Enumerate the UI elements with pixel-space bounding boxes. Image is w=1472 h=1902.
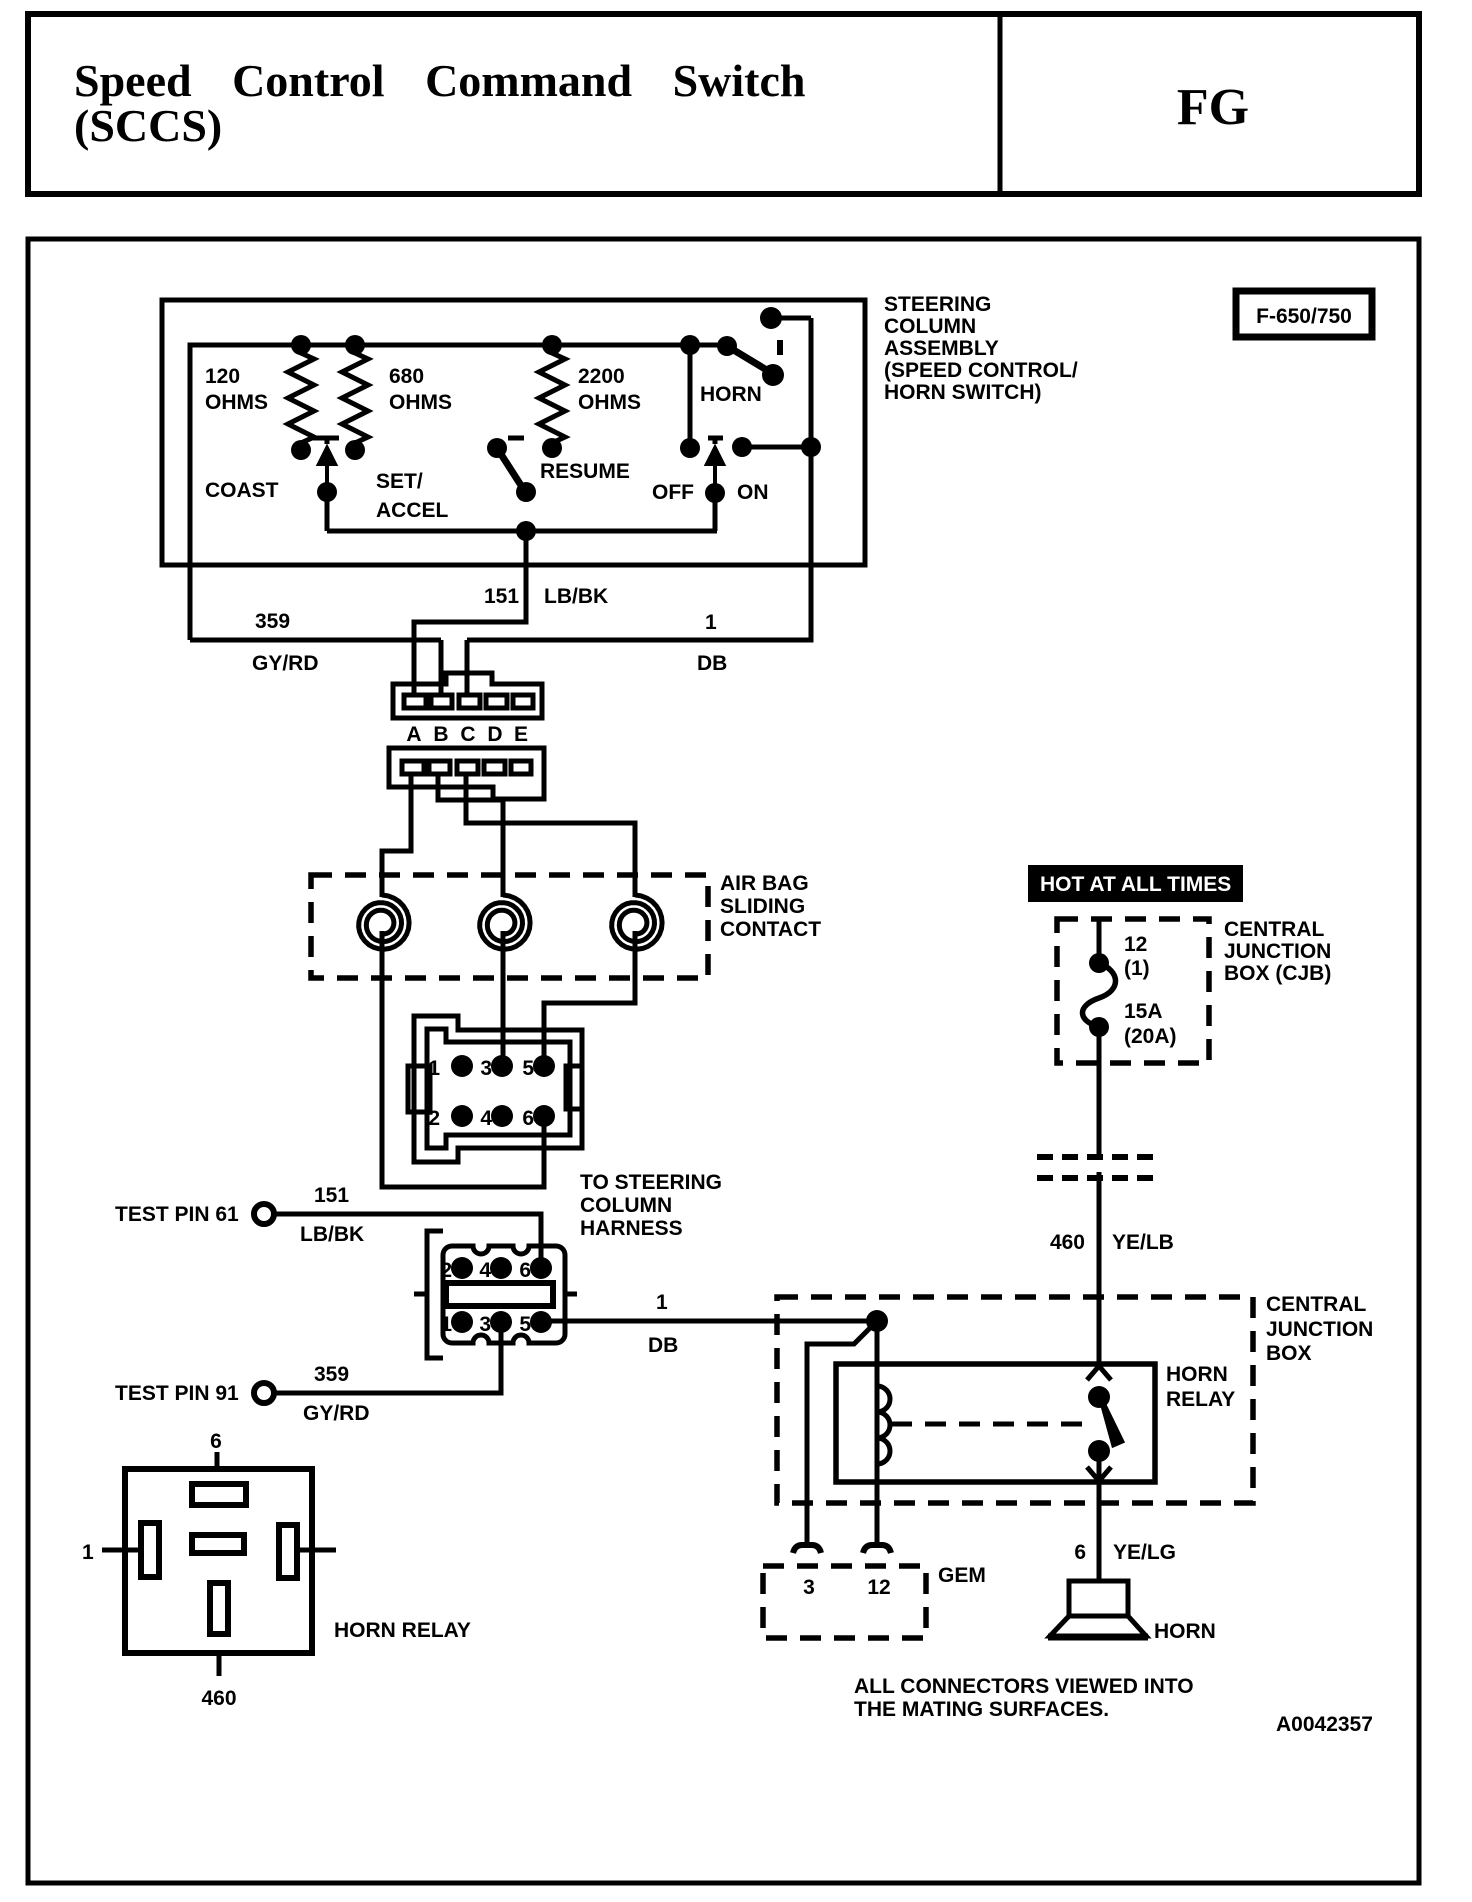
- svg-text:6: 6: [522, 1107, 534, 1130]
- svg-text:OHMS: OHMS: [578, 391, 641, 414]
- svg-text:(1): (1): [1124, 957, 1150, 980]
- svg-text:F-650/750: F-650/750: [1256, 305, 1352, 328]
- svg-text:(SPEED CONTROL/: (SPEED CONTROL/: [884, 359, 1078, 382]
- GEM dashed box: [763, 1566, 926, 1638]
- resistor R 680 OHMS: [342, 345, 368, 451]
- svg-text:ACCEL: ACCEL: [376, 499, 449, 522]
- svg-text:C: C: [460, 723, 475, 746]
- node dot R2 bottom: [345, 440, 365, 460]
- svg-text:COLUMN: COLUMN: [580, 1194, 672, 1217]
- node dot R3 bottom: [542, 438, 562, 458]
- svg-text:359: 359: [314, 1363, 349, 1386]
- wire junction to relay coil: [875, 1321, 880, 1386]
- wire horn top dot to right rail: [771, 316, 811, 321]
- node dot R1 bottom: [291, 440, 311, 460]
- connector C2 pin D slot: [484, 761, 505, 774]
- node dot R2 top: [345, 335, 365, 355]
- connector C2 pin B slot: [429, 761, 450, 774]
- connector C3 left side tab: [408, 1066, 430, 1112]
- svg-text:YE/LB: YE/LB: [1112, 1231, 1174, 1254]
- steering column assembly outer box: [162, 300, 865, 565]
- wire 1 DB C4 pin 5 to CJB junction: [551, 1319, 877, 1324]
- horn relay connector bottom tick: [217, 1653, 222, 1676]
- svg-text:120: 120: [205, 365, 240, 388]
- svg-text:3: 3: [480, 1057, 492, 1080]
- svg-text:2200: 2200: [578, 365, 625, 388]
- connector C4 pin 6 dot: [530, 1257, 552, 1279]
- wire 1 DB right side run: [467, 318, 811, 640]
- svg-text:THE MATING SURFACES.: THE MATING SURFACES.: [854, 1698, 1109, 1721]
- svg-text:SLIDING: SLIDING: [720, 895, 805, 918]
- inline connector lower dash bar: [1037, 1175, 1160, 1181]
- svg-text:CENTRAL: CENTRAL: [1266, 1293, 1366, 1316]
- relay switch top contact dot: [1088, 1386, 1110, 1408]
- svg-text:HORN SWITCH): HORN SWITCH): [884, 381, 1041, 404]
- svg-text:1: 1: [656, 1291, 668, 1314]
- horn relay connector pin 6 tick: [215, 1452, 220, 1469]
- horn relay connector center slot: [192, 1535, 244, 1553]
- test pin 61 terminal ring: [254, 1204, 274, 1224]
- node dot COAST common: [317, 482, 337, 502]
- resistor R 120 OHMS: [288, 345, 314, 451]
- svg-text:SET/: SET/: [376, 470, 423, 493]
- junction dot right rail at ON: [801, 437, 821, 457]
- wire 6 YE/LG relay to horn: [1097, 1451, 1102, 1581]
- svg-text:RELAY: RELAY: [1166, 1388, 1235, 1411]
- wire ON common to bus: [715, 493, 717, 531]
- svg-text:12: 12: [1124, 933, 1147, 956]
- relay switch exit arrow: [1087, 1467, 1111, 1481]
- svg-text:GY/RD: GY/RD: [252, 652, 319, 675]
- connector C4 pin 5 dot: [530, 1311, 552, 1333]
- fuse bottom node dot: [1089, 1017, 1109, 1037]
- wire relay coil to GEM pin 12: [875, 1464, 880, 1544]
- horn relay connector bottom slot: [210, 1583, 228, 1634]
- svg-text:6: 6: [210, 1430, 222, 1453]
- svg-text:AIR BAG: AIR BAG: [720, 872, 809, 895]
- svg-text:151: 151: [314, 1184, 349, 1207]
- svg-text:ON: ON: [737, 481, 769, 504]
- relay coil: [877, 1386, 890, 1464]
- HORN switch lever: [727, 346, 770, 372]
- connector C3 pin 3 dot: [491, 1055, 513, 1077]
- HORN switch pivot dot on bus: [717, 336, 737, 356]
- SET/ACCEL switch contact dot: [487, 438, 507, 458]
- svg-text:A0042357: A0042357: [1276, 1713, 1373, 1736]
- connector C1 pin D slot: [486, 695, 507, 708]
- header divider: [998, 14, 1003, 194]
- relay switch entry arrow: [1087, 1366, 1111, 1380]
- svg-text:B: B: [433, 723, 448, 746]
- connector C2 shell (lower 5-pin): [389, 748, 544, 799]
- HORN switch contact dot: [762, 364, 784, 386]
- node dot OFF top: [680, 335, 700, 355]
- HOT AT ALL TIMES banner: [1028, 865, 1243, 902]
- horn relay box: [836, 1364, 1155, 1482]
- wire 359 bottom run: [190, 638, 441, 643]
- fuse top node dot: [1089, 953, 1109, 973]
- wire from C2 pin A to sliding contact coil 1: [382, 774, 411, 897]
- connector C1 pin C slot: [459, 695, 480, 708]
- node dot SET/ACCEL common: [516, 482, 536, 502]
- svg-text:1: 1: [440, 1313, 452, 1336]
- horn relay connector right slot: [279, 1525, 297, 1578]
- node dot OFF contact: [680, 438, 700, 458]
- svg-text:JUNCTION: JUNCTION: [1266, 1318, 1373, 1341]
- horn relay connector right tick: [297, 1548, 336, 1553]
- horn speaker flare: [1050, 1616, 1146, 1636]
- inline connector upper dash bar: [1037, 1154, 1160, 1160]
- ON switch movable arm arrow: [707, 448, 723, 493]
- svg-text:LB/BK: LB/BK: [300, 1223, 364, 1246]
- connector C1 shell (upper 5-pin): [393, 673, 542, 718]
- horn speaker body: [1069, 1581, 1128, 1616]
- wire feed into fuse: [1097, 921, 1102, 956]
- relay switch lever: [1103, 1404, 1121, 1444]
- svg-text:CENTRAL: CENTRAL: [1224, 918, 1324, 941]
- horn relay connector box: [125, 1469, 312, 1653]
- svg-text:ALL CONNECTORS VIEWED INTO: ALL CONNECTORS VIEWED INTO: [854, 1675, 1194, 1698]
- fuse element S curve: [1082, 963, 1115, 1027]
- svg-text:YE/LG: YE/LG: [1113, 1541, 1176, 1564]
- svg-text:2: 2: [428, 1107, 440, 1130]
- junction dot wire 1 DB: [866, 1310, 888, 1332]
- svg-text:2: 2: [440, 1259, 452, 1282]
- connector C4 body outline with scallops: [443, 1246, 565, 1343]
- F-650/750 badge box: [1236, 291, 1372, 337]
- wire fuse to inline connector: [1097, 1027, 1102, 1158]
- svg-text:HOT AT ALL TIMES: HOT AT ALL TIMES: [1040, 873, 1231, 896]
- svg-text:1: 1: [705, 611, 717, 634]
- connector C3 pin 6 dot: [533, 1105, 555, 1127]
- connector C1 pin A slot: [404, 695, 426, 708]
- svg-text:JUNCTION: JUNCTION: [1224, 940, 1331, 963]
- svg-text:6: 6: [1074, 1541, 1086, 1564]
- COAST switch fixed contact T-bar: [313, 438, 339, 444]
- svg-text:5: 5: [522, 1057, 534, 1080]
- test pin 91 terminal ring: [254, 1383, 274, 1403]
- SET/ACCEL linkage dash: [508, 436, 524, 441]
- connector C3 pin 5 dot: [533, 1055, 555, 1077]
- connector C4 middle key slot: [446, 1283, 553, 1306]
- svg-text:680: 680: [389, 365, 424, 388]
- svg-text:5: 5: [519, 1313, 531, 1336]
- wire from C2 pin C to sliding contact coil 3: [466, 774, 635, 897]
- svg-text:COLUMN: COLUMN: [884, 315, 976, 338]
- svg-text:A: A: [406, 723, 421, 746]
- svg-text:GEM: GEM: [938, 1564, 986, 1587]
- inner wiring loop rectangle: [190, 345, 727, 640]
- svg-text:HARNESS: HARNESS: [580, 1217, 683, 1240]
- svg-text:HORN: HORN: [700, 383, 762, 406]
- OFF contact wire from top bus: [688, 345, 693, 448]
- wire coil2 exit to connector C3 pin 3: [501, 931, 506, 1056]
- sliding contact coil 2: [480, 895, 530, 949]
- central junction box dashed outline: [777, 1297, 1253, 1503]
- sliding contact coil 3: [612, 895, 662, 949]
- ON switch fixed contact T-bar: [708, 438, 723, 444]
- connector C1 pin B slot: [431, 695, 452, 708]
- junction dot wire 151 on bus: [516, 521, 536, 541]
- connector C4 left flange: [427, 1231, 443, 1358]
- HORN switch top node dot: [760, 307, 782, 329]
- svg-text:FG: FG: [1177, 79, 1249, 136]
- svg-text:OHMS: OHMS: [205, 391, 268, 414]
- node dot ON contact: [732, 437, 752, 457]
- node dot R3 top: [542, 335, 562, 355]
- connector C4 right tick: [565, 1292, 577, 1297]
- sliding contact coil 1: [359, 895, 409, 949]
- svg-text:COAST: COAST: [205, 479, 279, 502]
- connector C3 shell outer outline: [414, 1016, 582, 1162]
- node dot R1 top: [291, 335, 311, 355]
- wire from C2 pin B to sliding contact coil 2: [438, 774, 503, 897]
- svg-text:460: 460: [201, 1687, 236, 1710]
- connector C3 right side tab: [566, 1066, 582, 1109]
- svg-text:359: 359: [255, 610, 290, 633]
- connector C2 pin E slot: [511, 761, 531, 774]
- svg-text:TEST PIN 91: TEST PIN 91: [115, 1382, 239, 1405]
- connector C4 pin 4 dot: [490, 1257, 512, 1279]
- CJB fuse dashed box: [1057, 919, 1209, 1063]
- svg-text:TO STEERING: TO STEERING: [580, 1171, 722, 1194]
- COAST switch movable arm arrow: [319, 448, 335, 492]
- svg-text:6: 6: [519, 1259, 531, 1282]
- svg-text:3: 3: [803, 1576, 815, 1599]
- horn relay connector left slot: [141, 1523, 159, 1577]
- wire 151 test pin 61 to C4 pin 6: [274, 1214, 541, 1258]
- svg-text:ASSEMBLY: ASSEMBLY: [884, 337, 999, 360]
- wire 151 from bus junction down-left to pin A: [414, 531, 526, 695]
- node dot ON common: [705, 483, 725, 503]
- GEM pin 3 terminal foot: [793, 1545, 821, 1553]
- HORN switch linkage dash: [777, 340, 783, 355]
- bottom bus wire of switches: [327, 529, 717, 534]
- wire coil3 exit to connector C3 pin 5: [544, 931, 635, 1056]
- svg-text:460: 460: [1050, 1231, 1085, 1254]
- svg-text:CONTACT: CONTACT: [720, 918, 821, 941]
- GEM pin 12 terminal foot: [863, 1545, 891, 1553]
- connector C3 pin 4 dot: [491, 1105, 513, 1127]
- svg-text:1: 1: [428, 1057, 440, 1080]
- header box: [28, 14, 1419, 194]
- SET/ACCEL switch lever: [497, 448, 524, 490]
- relay switch bottom contact dot: [1088, 1440, 1110, 1462]
- connector C4 left tick: [414, 1292, 427, 1297]
- svg-text:4: 4: [479, 1259, 491, 1282]
- wire 460 inline connector to relay: [1097, 1172, 1102, 1366]
- svg-text:HORN: HORN: [1166, 1363, 1228, 1386]
- svg-text:(SCCS): (SCCS): [74, 100, 222, 151]
- svg-text:12: 12: [867, 1576, 890, 1599]
- relay mechanical dashed link: [891, 1422, 1088, 1427]
- wire 359 drop to pin B: [439, 640, 444, 695]
- horn relay connector top slot: [192, 1484, 246, 1505]
- svg-text:DB: DB: [648, 1334, 678, 1357]
- svg-text:DB: DB: [697, 652, 727, 675]
- svg-text:BOX (CJB): BOX (CJB): [1224, 962, 1331, 985]
- wire junction to GEM pin 3: [807, 1321, 877, 1544]
- wire ON contact to right rail: [742, 445, 811, 450]
- connector C3 pin 1 dot: [451, 1055, 473, 1077]
- svg-text:OFF: OFF: [652, 481, 694, 504]
- connector C4 pin 1 dot: [451, 1311, 473, 1333]
- svg-text:Speed Control Command Switch: Speed Control Command Switch: [74, 55, 806, 106]
- svg-text:15A: 15A: [1124, 1000, 1163, 1023]
- wire coil1 exit to connector C3 pin 6 route: [382, 931, 544, 1187]
- svg-text:4: 4: [480, 1107, 492, 1130]
- horn speaker base bar: [1048, 1634, 1148, 1641]
- air bag sliding contact dashed box: [311, 875, 708, 978]
- connector C4 pin 2 dot: [451, 1257, 473, 1279]
- svg-text:OHMS: OHMS: [389, 391, 452, 414]
- connector C3 shell inner outline: [427, 1029, 570, 1148]
- connector C4 pin 3 dot: [490, 1311, 512, 1333]
- svg-text:3: 3: [479, 1313, 491, 1336]
- svg-text:HORN: HORN: [1154, 1620, 1216, 1643]
- connector C1 pin E slot: [513, 695, 533, 708]
- svg-text:1: 1: [82, 1541, 94, 1564]
- svg-text:LB/BK: LB/BK: [544, 585, 608, 608]
- resistor R 2200 OHMS: [539, 345, 565, 451]
- svg-text:GY/RD: GY/RD: [303, 1402, 370, 1425]
- svg-text:STEERING: STEERING: [884, 293, 991, 316]
- horn relay connector pin 1 tick: [102, 1548, 141, 1553]
- svg-text:RESUME: RESUME: [540, 460, 630, 483]
- svg-text:TEST PIN 61: TEST PIN 61: [115, 1203, 239, 1226]
- svg-text:151: 151: [484, 585, 519, 608]
- svg-text:HORN RELAY: HORN RELAY: [334, 1619, 471, 1642]
- wire COAST common to bus: [325, 492, 330, 531]
- svg-text:D: D: [487, 723, 502, 746]
- connector C3 pin 2 dot: [451, 1105, 473, 1127]
- svg-text:BOX: BOX: [1266, 1342, 1312, 1365]
- svg-text:E: E: [514, 723, 528, 746]
- connector C2 pin C slot: [457, 761, 478, 774]
- wire 359 C4 pin 3 to test pin 91: [275, 1332, 501, 1393]
- wire 1 drop to pin C: [465, 640, 470, 695]
- svg-text:(20A): (20A): [1124, 1025, 1177, 1048]
- connector C2 pin A slot: [402, 761, 424, 774]
